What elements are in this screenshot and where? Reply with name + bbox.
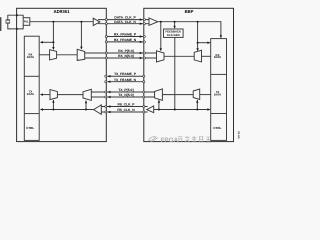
PLL box: [23, 18, 30, 26]
wire FB_CLK_P: [101, 106, 147, 108]
pin TX_FRAME_N (AD9361): [105, 81, 107, 83]
AD9361 data/ctrl box: [24, 36, 39, 140]
pin FB_CLK_N (BBP): [143, 111, 145, 113]
arrow into TX DATA box left (BBP): [207, 108, 210, 110]
wire receiver to deserializer (AD9361 TX): [57, 94, 83, 96]
arrow into tx serializer bottom (BBP): [196, 100, 198, 103]
right edge artifact: [238, 131, 240, 138]
arrow into TX DATA box data (AD9361): [40, 93, 43, 95]
svg-text:FPGA: FPGA: [161, 137, 179, 144]
junction crystal loop bottom / block edge: [16, 28, 18, 30]
wire TX_P: [91, 91, 154, 93]
pin TX_FRAME_N (BBP): [143, 81, 145, 83]
lvds clock driver T1: [93, 18, 100, 25]
arrow into FEEDBACK box: [173, 26, 175, 29]
pin RX_P (AD9361): [105, 52, 107, 54]
svg-text:TX_FRAME_N: TX_FRAME_N: [114, 78, 137, 82]
pin RX_FRAME_P (AD9361): [105, 35, 107, 37]
fb clock wire (BBP): [154, 109, 210, 111]
divider RX/TX (BBP): [211, 73, 227, 75]
lvds driver U2 (AD9361 RX): [77, 49, 85, 60]
arrow RX_N at BBP: [140, 57, 143, 59]
svg-text:RX_FRAME_N: RX_FRAME_N: [114, 38, 137, 42]
arrow into RX DATA box top (BBP): [220, 35, 222, 38]
clock branch into RX DATA box: [41, 41, 53, 43]
arrow into rx receiver top (BBP): [160, 48, 162, 51]
lvds clock receiver T2 (BBP): [149, 18, 158, 25]
pin FB_CLK_P (BBP): [143, 105, 145, 107]
svg-text:FB_CLK_N: FB_CLK_N: [117, 108, 135, 112]
wire RX DATA box to serializer: [39, 54, 49, 56]
arrow into serializer top: [52, 47, 54, 50]
deserializer R5 (AD9361 TX): [50, 90, 57, 100]
clock drop to feedback clk gen: [174, 22, 176, 27]
pin TX_N (AD9361): [105, 96, 107, 98]
wire deserializer to RX DATA box (BBP): [202, 55, 211, 57]
wire deserializer to TX DATA box: [41, 94, 50, 96]
divider TX/CTRL (AD9361): [24, 113, 39, 115]
watermark FPGA community: [149, 137, 159, 142]
junction DATA_CLK to rx receiver clock: [160, 21, 162, 23]
lvds driver D2 (BBP TX): [155, 89, 163, 100]
wire PLL to clock driver: [30, 21, 93, 23]
crystal X1: [6, 20, 10, 24]
svg-text:DATA: DATA: [27, 55, 34, 59]
arrow FB_CLK_P at AD9361: [107, 105, 110, 107]
svg-text:RX_FRAME_P: RX_FRAME_P: [114, 32, 137, 36]
fb clk receiver T3 (AD9361): [94, 105, 102, 115]
junction DATA_CLK to deserializer clock: [197, 21, 199, 23]
divider TX/CTRL (BBP): [211, 113, 227, 115]
junction DATA_CLK to feedback clk gen: [174, 21, 176, 23]
fb clock wire (AD9361): [41, 109, 94, 111]
wire DATA_CLK_N: [98, 23, 149, 25]
wire TX_FRAME_N: [107, 81, 144, 83]
svg-text:TX_P[5:0]: TX_P[5:0]: [118, 88, 133, 92]
pin RX_P (BBP): [143, 52, 145, 54]
arrow into receiver bottom (AD9361): [85, 100, 87, 103]
svg-text:DATA: DATA: [214, 92, 221, 96]
wire RX_FRAME_N: [106, 41, 144, 43]
svg-text:CTRL: CTRL: [26, 126, 34, 130]
arrow DATA_CLK_N at BBP: [140, 23, 143, 25]
lvds receiver R4 (AD9361 TX): [83, 89, 91, 100]
svg-text:DATA: DATA: [27, 92, 34, 96]
wire TX DATA box to serializer (BBP): [200, 94, 211, 96]
lvds receiver R2 (BBP RX): [157, 51, 165, 62]
pin RX_N (AD9361): [105, 57, 107, 59]
junction clock wire / serializer branch: [52, 21, 54, 23]
pin TX_P (BBP): [143, 91, 145, 93]
arrow DATA_CLK_P at BBP: [140, 18, 143, 20]
pin RX_FRAME_N (AD9361): [105, 41, 107, 43]
arrow into deserializer bottom (AD9361): [52, 100, 54, 103]
block AD9361 outline: [17, 8, 107, 141]
arrow RX_P at BBP: [140, 52, 143, 54]
clock rise to tx driver (BBP): [158, 100, 160, 110]
arrow RX_FRAME_N at BBP: [140, 41, 143, 43]
deserializer R3 (BBP RX): [194, 50, 201, 62]
junction fb clock to deserializer (AD9361): [52, 109, 54, 111]
pin FB_CLK_P (AD9361): [105, 105, 107, 107]
svg-text:RX_P[5:0]: RX_P[5:0]: [118, 49, 134, 53]
pin RX_FRAME_N (BBP): [143, 41, 145, 43]
arrow into driver top: [80, 47, 82, 50]
wire DATA_CLK distribution (BBP): [158, 22, 221, 38]
wire receiver to deserializer (BBP): [164, 55, 194, 57]
feedback clk line down: [174, 37, 176, 109]
junction fb clock to tx serializer (BBP): [196, 109, 198, 111]
arrow into deserializer top (BBP): [196, 48, 198, 51]
pin DATA_CLK_N (AD9361): [105, 23, 107, 25]
junction clock branch to RX DATA box: [52, 41, 54, 43]
arrow into RX DATA box (AD9361 clk): [40, 41, 43, 43]
clock rise to deserializer (AD9361): [52, 100, 54, 109]
BBP data/ctrl box: [211, 39, 227, 141]
wire RX_P: [85, 52, 157, 54]
serializer U1 (AD9361 RX): [50, 50, 57, 60]
svg-text:BBP: BBP: [185, 9, 194, 14]
clock rise to receiver (AD9361): [85, 101, 87, 110]
junction fb clock to tx driver (BBP): [158, 109, 160, 111]
svg-text:DATA_CLK_N: DATA_CLK_N: [114, 20, 136, 24]
wire RX_FRAME_P: [106, 36, 144, 38]
serializer S2 (BBP TX): [193, 89, 200, 100]
pin TX_P (AD9361): [105, 91, 107, 93]
wire RX_N: [85, 57, 157, 59]
left edge artifact: [0, 17, 1, 31]
block BBP outline: [144, 8, 234, 141]
arrow TX_P at AD9361: [107, 91, 110, 93]
svg-text:DATA_CLK_P: DATA_CLK_P: [114, 15, 136, 19]
junction clock branch to RX DATA box (BBP): [197, 42, 199, 44]
arrow TX_FRAME_P at AD9361: [107, 75, 110, 77]
arrow into RX DATA box left (BBP): [207, 42, 210, 44]
arrow RX_FRAME_P at BBP: [140, 35, 143, 37]
pin TX_FRAME_P (BBP): [143, 75, 145, 77]
arrow into TX DATA box clk (AD9361): [40, 108, 43, 110]
pin RX_N (BBP): [143, 57, 145, 59]
arrow FB_CLK_N at AD9361: [107, 111, 110, 113]
clock drop to deserializer (BBP): [197, 22, 199, 51]
clock drop B to lvds driver: [80, 22, 82, 49]
clock drop to rx receiver (BBP): [160, 22, 162, 51]
faux CJK char 4: [199, 137, 204, 142]
clock drop A to serializer: [52, 22, 54, 50]
svg-text:RX_N[5:0]: RX_N[5:0]: [118, 54, 134, 58]
arrow TX_N at AD9361: [107, 96, 110, 98]
pin DATA_CLK_P (BBP): [143, 19, 145, 21]
wire TX_N: [91, 96, 154, 98]
faux CJK char 1: [178, 137, 183, 142]
wire FB_CLK_N: [101, 111, 147, 113]
svg-text:FB_CLK_P: FB_CLK_P: [117, 102, 135, 106]
junction feedback line / fb wire (BBP): [174, 109, 176, 111]
wire TX_FRAME_P: [107, 75, 144, 77]
pin TX_N (BBP): [143, 96, 145, 98]
faux CJK char 3: [192, 136, 196, 142]
faux CJK char 2: [185, 136, 190, 142]
svg-text:TX_N[5:0]: TX_N[5:0]: [118, 93, 133, 97]
divider RX/TX (AD9361): [24, 75, 39, 77]
pin DATA_CLK_N (BBP): [143, 23, 145, 25]
wire DATA_CLK_P: [98, 19, 149, 21]
pin RX_FRAME_P (BBP): [143, 35, 145, 37]
pin TX_FRAME_P (AD9361): [105, 75, 107, 77]
wire crystal loop top: [8, 15, 23, 19]
svg-text:PLL: PLL: [24, 21, 29, 24]
svg-text:DATA: DATA: [214, 55, 221, 59]
junction crystal loop top / block edge: [16, 14, 18, 16]
svg-text:CTRL: CTRL: [213, 126, 221, 130]
arrow into tx driver bottom (BBP): [158, 100, 160, 103]
clock branch into RX DATA box (BBP): [198, 42, 210, 44]
svg-text:AD9361: AD9361: [53, 9, 70, 14]
pin DATA_CLK_P (AD9361): [105, 19, 107, 21]
wire crystal loop bottom: [8, 23, 23, 29]
svg-text:CLK GEN: CLK GEN: [167, 33, 180, 37]
wire serializer to lvds driver: [57, 54, 78, 56]
fb clk driver T4 (BBP): [147, 106, 154, 113]
faux CJK char 5: [206, 137, 211, 142]
svg-text:TX_FRAME_P: TX_FRAME_P: [114, 72, 137, 76]
junction clock wire / driver branch: [80, 21, 82, 23]
clock rise to tx serializer (BBP): [196, 100, 198, 110]
wire driver to serializer (BBP TX): [162, 94, 193, 96]
pin FB_CLK_N (AD9361): [105, 111, 107, 113]
arrow TX_FRAME_N at AD9361: [107, 81, 110, 83]
FEEDBACK CLK GEN box: [164, 29, 184, 37]
junction fb clock to receiver (AD9361): [85, 109, 87, 111]
